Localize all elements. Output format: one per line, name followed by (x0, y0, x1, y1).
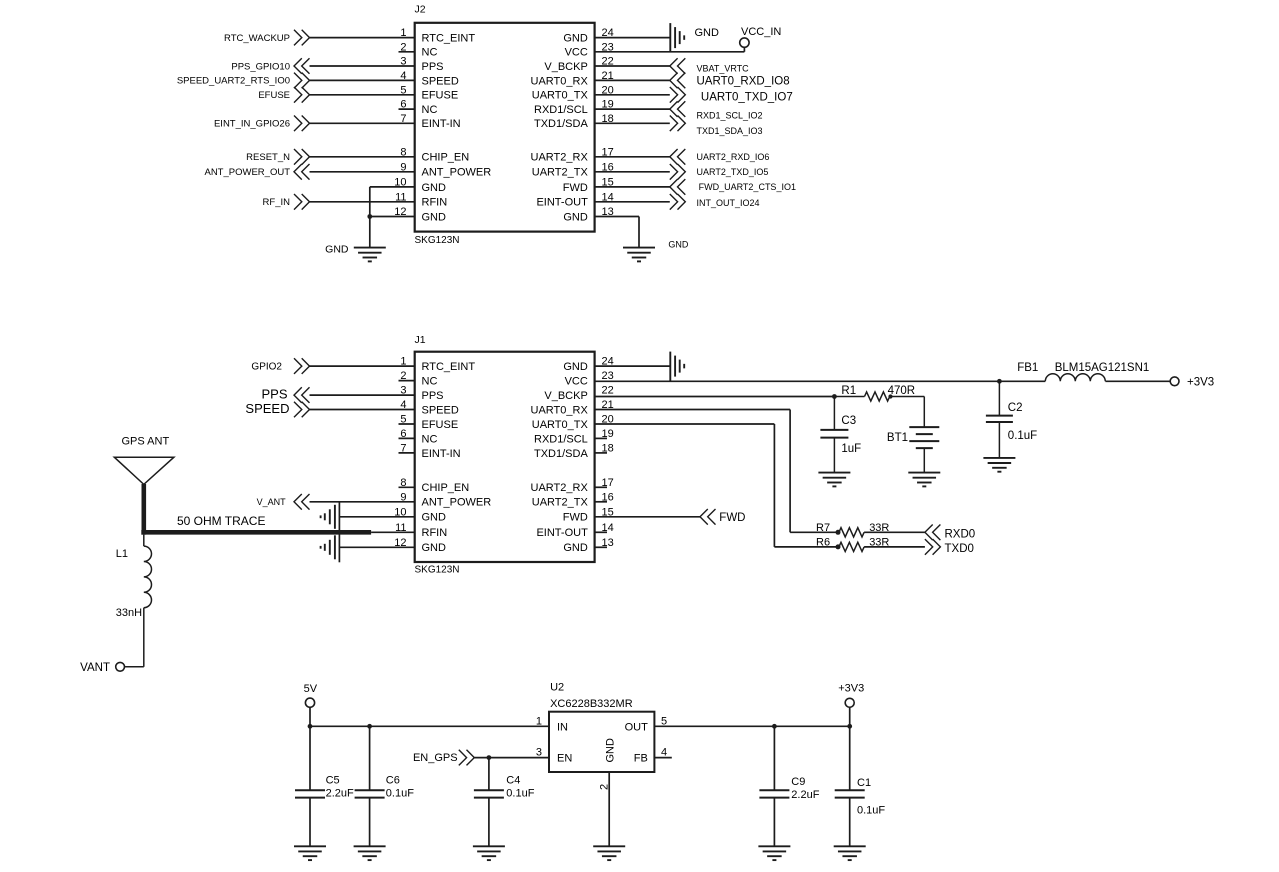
svg-text:SPEED: SPEED (422, 404, 459, 416)
svg-text:GND: GND (422, 542, 447, 554)
svg-text:CHIP_EN: CHIP_EN (422, 152, 470, 164)
svg-text:TXD0: TXD0 (945, 543, 974, 555)
svg-text:0.1uF: 0.1uF (506, 788, 534, 800)
svg-text:RFIN: RFIN (422, 527, 448, 539)
svg-text:U2: U2 (550, 682, 564, 694)
svg-text:EFUSE: EFUSE (422, 419, 459, 431)
svg-text:V_BCKP: V_BCKP (544, 61, 587, 73)
svg-text:2.2uF: 2.2uF (791, 789, 819, 801)
svg-text:RXD0: RXD0 (945, 529, 976, 541)
svg-text:UART2_TXD_IO5: UART2_TXD_IO5 (697, 167, 769, 177)
svg-text:C6: C6 (386, 775, 400, 787)
svg-text:C2: C2 (1008, 402, 1023, 414)
svg-text:33R: 33R (869, 537, 889, 549)
svg-text:ANT_POWER: ANT_POWER (422, 497, 492, 509)
svg-text:0.1uF: 0.1uF (857, 805, 885, 817)
svg-text:V_ANT: V_ANT (257, 497, 287, 507)
svg-text:EINT-IN: EINT-IN (422, 118, 461, 130)
svg-text:GND: GND (605, 738, 617, 763)
svg-text:RXD1/SCL: RXD1/SCL (534, 433, 588, 445)
svg-text:TXD1_SDA_IO3: TXD1_SDA_IO3 (697, 126, 763, 136)
svg-text:GND: GND (422, 182, 447, 194)
svg-text:GND: GND (563, 211, 588, 223)
svg-text:C5: C5 (326, 775, 340, 787)
svg-text:C3: C3 (841, 415, 856, 427)
svg-text:GND: GND (695, 27, 720, 39)
svg-text:0.1uF: 0.1uF (386, 788, 414, 800)
svg-text:GND: GND (563, 33, 588, 45)
svg-text:GND: GND (563, 361, 588, 373)
svg-text:TXD1/SDA: TXD1/SDA (534, 118, 588, 130)
svg-text:TXD1/SDA: TXD1/SDA (534, 448, 588, 460)
svg-text:EINT-IN: EINT-IN (422, 448, 461, 460)
svg-text:VCC_IN: VCC_IN (741, 26, 781, 38)
svg-text:GND: GND (563, 542, 588, 554)
svg-text:V_BCKP: V_BCKP (544, 390, 587, 402)
svg-text:RF_IN: RF_IN (263, 197, 291, 208)
svg-text:NC: NC (422, 47, 438, 59)
svg-text:5V: 5V (304, 683, 318, 695)
svg-text:FB: FB (634, 753, 648, 765)
svg-text:INT_OUT_IO24: INT_OUT_IO24 (697, 198, 760, 208)
svg-text:EINT_IN_GPIO26: EINT_IN_GPIO26 (214, 119, 290, 130)
svg-text:ANT_POWER_OUT: ANT_POWER_OUT (204, 167, 290, 178)
svg-text:C4: C4 (506, 775, 520, 787)
svg-text:BT1: BT1 (887, 432, 908, 444)
svg-text:PPS: PPS (261, 386, 287, 401)
svg-text:EFUSE: EFUSE (422, 90, 459, 102)
svg-text:23: 23 (602, 370, 614, 382)
svg-text:50 OHM TRACE: 50 OHM TRACE (177, 514, 265, 528)
svg-text:UART2_TX: UART2_TX (532, 497, 589, 509)
svg-text:FWD: FWD (563, 182, 588, 194)
svg-text:UART0_RXD_IO8: UART0_RXD_IO8 (697, 76, 790, 88)
svg-text:EINT-OUT: EINT-OUT (536, 197, 588, 209)
svg-text:PPS_GPIO10: PPS_GPIO10 (231, 61, 290, 72)
svg-text:IN: IN (557, 721, 568, 733)
svg-text:SPEED: SPEED (245, 401, 289, 416)
svg-text:VBAT_VRTC: VBAT_VRTC (697, 64, 750, 74)
svg-text:UART2_TX: UART2_TX (532, 167, 589, 179)
svg-text:BLM15AG121SN1: BLM15AG121SN1 (1055, 362, 1150, 374)
svg-text:VANT: VANT (80, 662, 110, 674)
svg-text:CHIP_EN: CHIP_EN (422, 482, 470, 494)
svg-text:EINT-OUT: EINT-OUT (536, 527, 588, 539)
svg-text:RFIN: RFIN (422, 197, 448, 209)
svg-text:UART2_RX: UART2_RX (531, 152, 589, 164)
svg-text:GND: GND (422, 512, 447, 524)
svg-text:UART0_TX: UART0_TX (532, 419, 589, 431)
svg-text:NC: NC (422, 433, 438, 445)
svg-text:EN_GPS: EN_GPS (413, 752, 458, 764)
svg-text:33R: 33R (869, 522, 889, 534)
svg-text:UART0_TXD_IO7: UART0_TXD_IO7 (701, 92, 793, 104)
svg-text:470R: 470R (888, 385, 916, 397)
svg-text:RXD1_SCL_IO2: RXD1_SCL_IO2 (697, 111, 763, 121)
svg-text:ANT_POWER: ANT_POWER (422, 167, 492, 179)
svg-text:SKG123N: SKG123N (415, 235, 460, 246)
svg-text:RXD1/SCL: RXD1/SCL (534, 104, 588, 116)
svg-text:FWD_UART2_CTS_IO1: FWD_UART2_CTS_IO1 (699, 182, 796, 192)
svg-text:XC6228B332MR: XC6228B332MR (550, 698, 633, 710)
svg-text:SKG123N: SKG123N (415, 565, 460, 576)
svg-text:GND: GND (325, 244, 349, 256)
svg-text:FWD: FWD (563, 512, 588, 524)
svg-text:RESET_N: RESET_N (246, 152, 290, 163)
svg-text:UART0_TX: UART0_TX (532, 90, 589, 102)
svg-text:2.2uF: 2.2uF (326, 788, 354, 800)
svg-text:1uF: 1uF (841, 443, 861, 455)
svg-text:R6: R6 (816, 537, 830, 549)
svg-text:+3V3: +3V3 (1187, 377, 1214, 389)
svg-text:22: 22 (602, 385, 614, 397)
svg-text:NC: NC (422, 376, 438, 388)
svg-text:EN: EN (557, 753, 572, 765)
svg-text:RTC_EINT: RTC_EINT (422, 361, 476, 373)
svg-text:0.1uF: 0.1uF (1008, 430, 1037, 442)
svg-text:R7: R7 (816, 522, 830, 534)
svg-text:RTC_EINT: RTC_EINT (422, 33, 476, 45)
svg-text:NC: NC (422, 104, 438, 116)
svg-text:FB1: FB1 (1017, 362, 1038, 374)
svg-text:GND: GND (422, 211, 447, 223)
svg-text:SPEED: SPEED (422, 75, 459, 87)
svg-text:UART2_RXD_IO6: UART2_RXD_IO6 (697, 152, 770, 162)
svg-text:UART0_RX: UART0_RX (531, 75, 589, 87)
svg-text:PPS: PPS (422, 390, 444, 402)
svg-text:GND: GND (668, 240, 689, 250)
svg-text:RTC_WACKUP: RTC_WACKUP (224, 33, 290, 44)
svg-text:C9: C9 (791, 776, 805, 788)
svg-text:GPS ANT: GPS ANT (122, 436, 170, 448)
svg-text:UART2_RX: UART2_RX (531, 482, 589, 494)
svg-text:J1: J1 (415, 334, 426, 346)
svg-text:J2: J2 (415, 4, 426, 16)
svg-text:C1: C1 (857, 777, 871, 789)
svg-text:VCC: VCC (565, 376, 588, 388)
svg-text:SPEED_UART2_RTS_IO0: SPEED_UART2_RTS_IO0 (177, 76, 290, 87)
svg-text:VCC: VCC (565, 47, 588, 59)
svg-text:R1: R1 (841, 385, 856, 397)
svg-text:PPS: PPS (422, 61, 444, 73)
svg-text:UART0_RX: UART0_RX (531, 404, 589, 416)
svg-text:L1: L1 (116, 548, 128, 560)
svg-text:33nH: 33nH (116, 607, 142, 619)
svg-text:GPIO2: GPIO2 (251, 361, 282, 372)
svg-text:EFUSE: EFUSE (258, 90, 290, 101)
svg-text:+3V3: +3V3 (838, 683, 864, 695)
svg-text:FWD: FWD (719, 512, 745, 524)
svg-text:OUT: OUT (625, 721, 649, 733)
